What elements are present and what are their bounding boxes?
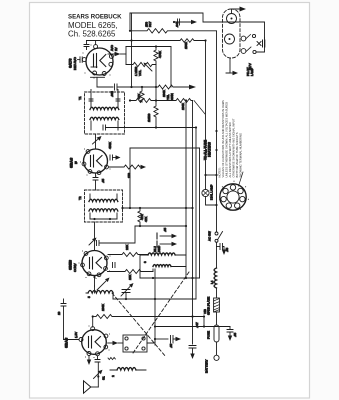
- coupling cap .005 in bus y=87: [115, 84, 118, 90]
- svg-text:47K: 47K: [140, 215, 144, 220]
- svg-text:6AT6: 6AT6: [68, 58, 73, 68]
- switch S1 arm: [94, 373, 100, 379]
- vertical bus x=199.5: [199, 148, 201, 278]
- pilot block dashed pill: [223, 9, 241, 58]
- bus y=127.5: [106, 127, 197, 129]
- node dot (205,40.5): [204, 39, 206, 41]
- wire y=46.5 to x=171: [126, 47, 171, 88]
- svg-text:6BE6: 6BE6: [68, 259, 73, 270]
- short diagonal leader: [194, 101, 205, 115]
- grid arrow and cap left of V3 stem: [89, 241, 93, 245]
- svg-text:VALUES OF CAPACITORS IN UFD AN: VALUES OF CAPACITORS IN UFD AND RESISTOR…: [221, 100, 225, 178]
- svg-text:150K: 150K: [184, 42, 188, 49]
- V4 plate arrow: [108, 342, 113, 344]
- switch on heater bus: [215, 232, 218, 235]
- V4 pin circles: [91, 327, 95, 331]
- resistor 100K in bus y=316.5: [96, 315, 204, 319]
- dial lamp: [202, 189, 209, 196]
- node dots y=103: [129, 99, 131, 101]
- svg-text:6BA6: 6BA6: [64, 337, 69, 348]
- vertical x=204: [203, 317, 205, 327]
- antenna coil L1: [117, 368, 136, 370]
- pilot lamp A: [227, 14, 237, 24]
- svg-text:1MEG: 1MEG: [147, 113, 151, 122]
- svg-text:HEATERS: HEATERS: [208, 142, 212, 157]
- V2 plate small parts right: [110, 155, 113, 160]
- svg-text:FUSE: FUSE: [207, 331, 211, 339]
- resistor 270 right of V2: [109, 165, 142, 169]
- svg-text:.05: .05: [169, 343, 173, 348]
- svg-text:SHOWING TERMINAL NUMBERING: SHOWING TERMINAL NUMBERING: [239, 133, 243, 178]
- svg-text:CONV: CONV: [73, 263, 77, 272]
- resistor vertical x=142 (87 to 103): [140, 87, 144, 102]
- dashed gang line D1: [133, 272, 189, 353]
- arrow B+ feed at y=22: [174, 21, 192, 23]
- bus x=205.5 vertical: [205, 41, 207, 190]
- caps between rows: [113, 263, 116, 268]
- resistor 22K row y=254.5: [108, 253, 148, 257]
- screen arrows with caps: [160, 235, 172, 237]
- svg-text:.047: .047: [195, 322, 199, 328]
- svg-text:GRN: GRN: [170, 93, 174, 100]
- wire bus y=40.5: [87, 40, 126, 42]
- V1 cathode drop: [96, 77, 98, 87]
- svg-text:ALL RESISTORS 1/2 WATT UNLESS: ALL RESISTORS 1/2 WATT UNLESS NOTED: [228, 122, 232, 177]
- V1 pin circles: [94, 45, 98, 49]
- svg-text:100K: 100K: [162, 90, 166, 97]
- pill bottom wire x=230: [226, 58, 230, 73]
- V4 top stem: [92, 317, 94, 328]
- svg-text:UNLESS OTHERWISE SHOWN. ALL VO: UNLESS OTHERWISE SHOWN. ALL VOLTAGES MEA…: [225, 102, 229, 178]
- svg-text:10K: 10K: [128, 275, 132, 280]
- resistor 150K inline bus y=40.5: [180, 39, 205, 43]
- node dot (156,46.5): [155, 45, 157, 47]
- vertical bus x=192.5: [192, 101, 194, 345]
- vertical x=130: [129, 148, 131, 208]
- T2 leads: [90, 194, 117, 219]
- pilot lamp B: [225, 34, 235, 44]
- svg-text:6BA6: 6BA6: [69, 157, 74, 168]
- tube V2 6BA6 envelope: [84, 149, 108, 173]
- vertical x=155: [154, 269, 156, 345]
- svg-text:DIAL LAMP: DIAL LAMP: [210, 184, 214, 200]
- bus y=208 from T2: [123, 207, 193, 209]
- loop antenna block: [123, 335, 147, 352]
- svg-text:R17: R17: [148, 21, 152, 27]
- oscillator coil L2: [88, 291, 113, 294]
- tube V3 6BE6 envelope: [82, 251, 107, 276]
- svg-text:VOL: VOL: [138, 70, 142, 76]
- plate arrow of V1: [108, 53, 115, 55]
- bus y=278: [140, 277, 200, 279]
- svg-text:T1: T1: [78, 96, 82, 100]
- V2 internals: [90, 156, 92, 167]
- svg-text:117V: 117V: [248, 63, 252, 70]
- V3 pin circles: [84, 252, 88, 256]
- bus y=148: [130, 147, 200, 149]
- V3 internals: [89, 258, 91, 269]
- wire x=131.5 vertical: [131, 13, 133, 87]
- resistor R (150ohm) on bus y=30.8: [130, 29, 217, 33]
- stub V1 pin1 to bus: [95, 41, 97, 45]
- svg-text:453K: 453K: [108, 142, 112, 149]
- arrow right from pill bottom: [229, 72, 233, 74]
- svg-text:BOTTOM VIEW OF TUBE SOCKETS: BOTTOM VIEW OF TUBE SOCKETS: [235, 132, 239, 177]
- svg-text:10: 10: [57, 311, 61, 315]
- svg-text:.05: .05: [101, 178, 105, 183]
- pot wiper arrow: [147, 66, 153, 72]
- cap on bus y=127.5: [103, 125, 106, 130]
- svg-text:.05: .05: [163, 227, 167, 232]
- svg-text:DET-AVC: DET-AVC: [73, 56, 77, 70]
- IF transformer T1 dashed box: [85, 92, 125, 134]
- bus y=299: [113, 298, 196, 300]
- wire x=126 plate drop: [125, 47, 127, 65]
- svg-text:47K: 47K: [137, 94, 141, 99]
- svg-text:BATTERY: BATTERY: [205, 359, 209, 373]
- T2 secondary coil: [89, 209, 118, 211]
- V4 internals: [88, 337, 90, 348]
- grid cap left column x=63.5: [63, 299, 65, 303]
- svg-text:Ch. 528.6265: Ch. 528.6265: [68, 30, 116, 39]
- speaker: [84, 381, 91, 393]
- node dot heater bus: [215, 130, 217, 132]
- svg-text:SPKR PLATE: SPKR PLATE: [207, 297, 211, 315]
- volume pot 1MEG: [126, 62, 156, 66]
- node dot (130,30.8): [129, 30, 131, 32]
- V1 grid side cap: [80, 57, 82, 63]
- cap x=192.5 bottom: [189, 346, 196, 349]
- svg-text:OTHERWISE SHOWN WITH NO SIGNAL: OTHERWISE SHOWN WITH NO SIGNAL INPUT: [232, 118, 236, 177]
- T1 trimmers: [89, 99, 120, 101]
- heater bus vertical x=216.5: [216, 31, 218, 232]
- tube V4 6BA6 envelope: [82, 330, 107, 355]
- tube V1 6AT6 envelope: [86, 48, 113, 75]
- choke L4 on heater bus: [214, 268, 216, 288]
- socket leader: [239, 172, 244, 186]
- svg-text:T2: T2: [78, 196, 82, 200]
- bus y=87: [97, 86, 113, 88]
- V3 cathode bottom: [93, 276, 95, 278]
- svg-text:470K: 470K: [158, 51, 162, 58]
- svg-text:2V: 2V: [114, 47, 118, 51]
- svg-text:.05: .05: [225, 247, 229, 252]
- svg-text:47K: 47K: [144, 217, 148, 222]
- V4 cathode grounds: [88, 356, 90, 361]
- svg-text:.047: .047: [175, 21, 179, 27]
- node dots T2 bottom: [93, 218, 95, 220]
- resistor 470K vertical x=156: [154, 47, 158, 65]
- T3 wires: [140, 255, 186, 278]
- node dot (131.5,40.5): [130, 39, 132, 41]
- T1 primary coil: [90, 107, 119, 109]
- battery terminal: [214, 355, 219, 360]
- T1 leads: [91, 90, 118, 131]
- svg-text:SEARS ROEBUCK: SEARS ROEBUCK: [68, 14, 122, 21]
- V3 top stem: [94, 222, 96, 251]
- cap at x=230 bottom: [229, 327, 231, 330]
- fuse: [214, 325, 219, 342]
- hatched resistor: [214, 298, 220, 312]
- resistor 47K vertical x=140: [138, 208, 142, 226]
- arrow above V2: [93, 140, 98, 145]
- cap stub right of bus: [217, 246, 220, 248]
- bus y=226: [135, 225, 186, 227]
- vertical bus x=196: [195, 128, 197, 300]
- vertical bus x=186: [185, 101, 187, 279]
- bus y=326.5: [155, 326, 230, 328]
- resistor 10K row y=271.5: [108, 270, 154, 274]
- output transformer T3 primary coil: [148, 253, 175, 255]
- svg-text:IF: IF: [74, 161, 78, 164]
- pin number specks: [77, 44, 249, 358]
- svg-text:180K: 180K: [181, 103, 185, 110]
- svg-text:100K: 100K: [101, 304, 105, 311]
- IF transformer T2 dashed box: [85, 190, 123, 222]
- pill top arrow: [232, 9, 241, 14]
- bus y=316.5: [93, 316, 96, 318]
- V1 internals: [93, 54, 95, 67]
- AC plug assembly: [256, 38, 265, 52]
- V2 pin circles: [86, 150, 90, 154]
- T2 primary coil: [89, 199, 118, 201]
- wire left drop x=130 to y=30.8: [129, 13, 131, 31]
- wire top bus y=13: [130, 13, 265, 38]
- bus y=103 with two resistors: [130, 99, 193, 103]
- svg-text:S1: S1: [102, 376, 106, 380]
- link y=175: [206, 174, 217, 176]
- T1 secondary coil: [90, 117, 119, 119]
- resistor vertical x=156 (87 to 127.5): [154, 87, 158, 128]
- wire y=226 to V3 grid: [100, 226, 135, 243]
- cap+arrow bottom middle: [155, 338, 168, 340]
- tuning cap osc section: [122, 290, 130, 293]
- node dots on y=87: [130, 86, 132, 88]
- tube socket diagram: [220, 184, 246, 210]
- V2 cathode cap below: [95, 173, 97, 177]
- small diag resistor: [108, 357, 115, 359]
- svg-text:AC SW: AC SW: [208, 231, 212, 241]
- dashed gang line D2: [112, 293, 166, 357]
- svg-text:.05: .05: [233, 332, 237, 337]
- notes text block: [218, 100, 243, 178]
- svg-text:RED: RED: [157, 245, 161, 252]
- svg-text:NOTES:: NOTES:: [218, 167, 222, 177]
- oscillator trimmer arrows: [97, 281, 106, 290]
- grid cap C on V1 top-left: [86, 41, 88, 45]
- svg-text:L4: L4: [210, 280, 214, 284]
- T3 secondary coil: [153, 265, 171, 267]
- V2 top stem: [95, 134, 97, 149]
- svg-text:22K: 22K: [125, 245, 129, 250]
